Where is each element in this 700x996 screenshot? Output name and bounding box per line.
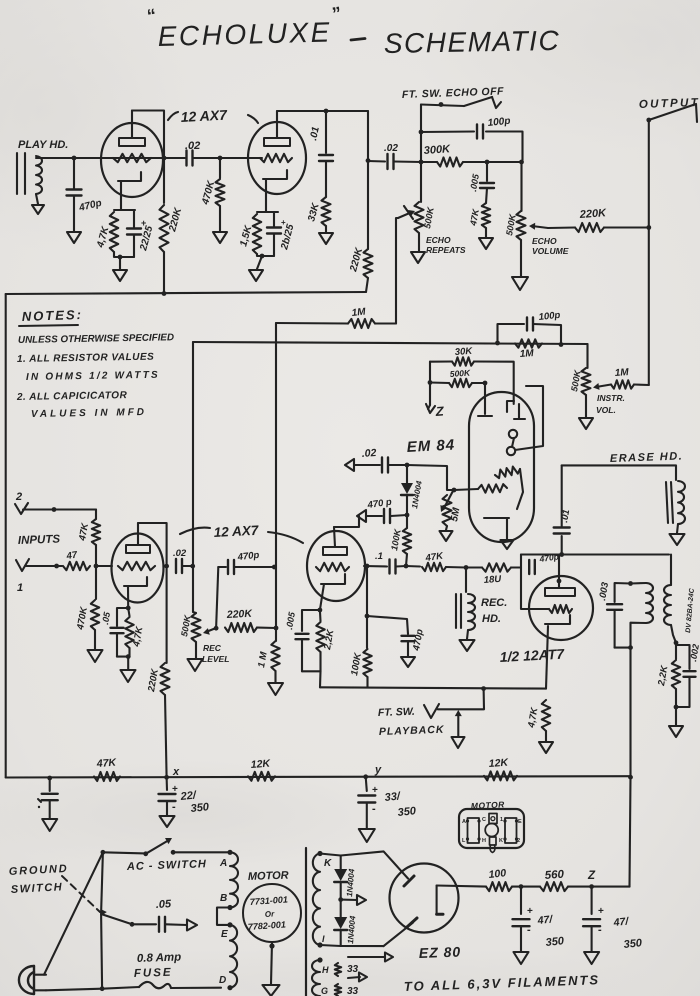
tube V2b grid zigzag [316, 563, 349, 571]
capacitor .02 (interstage 1) [185, 140, 200, 166]
resistor 1M (rail2) [515, 339, 542, 360]
resistor 47 (input 1) [63, 550, 90, 571]
wire V1b cathode join [257, 254, 274, 256]
rec head coil [467, 594, 475, 639]
tube V1a 12AX7 envelope [101, 123, 163, 197]
wire input 1 [25, 564, 62, 569]
arrow filament bus [348, 953, 393, 962]
node 5M junction [452, 488, 457, 493]
svg-text:VALUES IN MFD: VALUES IN MFD [31, 407, 147, 420]
node output/220K [646, 225, 651, 230]
node rec wiper [214, 626, 219, 631]
diode 1N4004 (eye) [401, 465, 424, 515]
wire osc top bus [521, 555, 669, 568]
svg-text:47K: 47K [95, 757, 117, 770]
svg-text:.02: .02 [361, 447, 377, 460]
notes line 1 [18, 332, 174, 346]
svg-text:x: x [172, 766, 180, 778]
resistor 220K (V2a plate load) [146, 663, 170, 695]
tap I [322, 934, 325, 944]
resistor 220K (V1b plate load) [348, 246, 372, 278]
resistor 33K [306, 162, 330, 232]
resistor 4.7K (osc cathode) [526, 700, 550, 741]
title SCHEMATIC [384, 25, 561, 59]
resistor 300K [421, 143, 487, 166]
svg-text:G: G [321, 986, 328, 996]
tube V1b grid zigzag [260, 154, 292, 162]
transformer primary winding upper [230, 852, 238, 907]
resistor 220K (output mix) [548, 207, 649, 232]
node filter 1 [519, 884, 524, 889]
ground below 470K input [88, 650, 103, 662]
tube V3 12AT7 envelope [529, 576, 593, 640]
diode 1N4004 (upper) [334, 856, 356, 900]
node X [164, 766, 180, 780]
node .01 branch [324, 109, 329, 114]
svg-text:1: 1 [17, 582, 23, 594]
capacitor .05 (line) [132, 898, 172, 932]
tube V1a plate [119, 111, 145, 147]
arrow playback plug [455, 710, 462, 736]
capacitor 22/350 [159, 777, 211, 815]
EM84 zigzag lower [454, 469, 523, 509]
tap G [321, 986, 328, 996]
node Y [363, 764, 382, 779]
fuse [139, 982, 221, 988]
label ERASE HD. [610, 450, 684, 465]
resistor 1M (instr) [611, 367, 649, 389]
label DV 82BA-24C [685, 587, 696, 633]
svg-text:1M: 1M [614, 367, 629, 379]
resistor 100K (eye) [389, 515, 411, 566]
wire instr pot ground [585, 395, 587, 417]
svg-text:INPUTS: INPUTS [18, 534, 61, 547]
wire rail 3 [6, 776, 631, 777]
tap A [219, 858, 227, 869]
title ECHOLUXE [157, 16, 332, 52]
EM84 eye dots [507, 430, 517, 455]
node output [646, 118, 651, 123]
svg-text:C: C [482, 817, 486, 823]
ground below 33/350 [359, 829, 375, 842]
tube V1b cathode [263, 170, 287, 212]
svg-text:D: D [219, 975, 226, 986]
play head wire to grid [36, 157, 185, 159]
resistor 18K [466, 563, 521, 586]
resistor 12K (rail3 a) [248, 758, 275, 781]
label MOTOR [248, 870, 289, 883]
capacitor filter (left) [38, 778, 58, 818]
svg-text:E: E [518, 819, 522, 825]
svg-text:PLAY HD.: PLAY HD. [18, 139, 68, 151]
tube V2a envelope [112, 534, 164, 603]
mains plug [19, 966, 46, 994]
svg-text:H: H [482, 838, 486, 844]
motor connector body [459, 809, 524, 848]
ground below bias [669, 726, 683, 737]
node 220K/1M [274, 626, 279, 631]
resistor 33 (H) [335, 963, 359, 976]
wire to V2a grid [96, 565, 112, 567]
motor connector letters [462, 817, 522, 844]
wire Z bus [429, 362, 431, 405]
transformer core [305, 848, 307, 996]
svg-text:350: 350 [623, 937, 643, 951]
capacitor .02 (eye feed) [345, 447, 407, 473]
wire grid loop [521, 568, 549, 610]
label GROUND [9, 863, 69, 878]
resistor 560 [540, 869, 568, 891]
wire pivot down [101, 914, 102, 989]
switch AC [143, 838, 175, 856]
wire V2a plate rail [138, 523, 167, 663]
svg-text:LEVEL: LEVEL [202, 654, 229, 664]
svg-text:K: K [499, 838, 503, 844]
dashed pointer [62, 876, 100, 912]
resistor 1.5K (V1b cathode) [238, 212, 278, 254]
svg-text:VOLUME: VOLUME [532, 246, 569, 256]
node V1b cathode net [257, 254, 264, 269]
wire grid bus drop [275, 323, 277, 641]
node 470p branch [365, 614, 370, 619]
wire rec level ground [195, 642, 197, 658]
jack playback [424, 704, 439, 718]
ground below left cap [42, 819, 57, 831]
wire V2a plate load to rail3 [165, 695, 167, 777]
capacitor .1 (coupling) [364, 551, 406, 574]
resistor 1M (V2b grid leak) [256, 641, 280, 682]
motor connector pins left [466, 818, 481, 843]
wire repeats to ground [418, 233, 420, 251]
tube V2a plate [126, 523, 150, 553]
svg-text:HD.: HD. [482, 613, 501, 625]
wire V1b plate drop [367, 111, 369, 249]
tube V1a grid zigzag [113, 154, 151, 162]
potentiometer 500K rec level [179, 612, 229, 664]
capacitor 470p (to ground) [367, 616, 426, 656]
ground playback [452, 737, 465, 748]
node rec level top [190, 564, 195, 569]
ground below rec level [188, 659, 203, 671]
label input 2 [15, 491, 22, 503]
svg-text:OUTPUT: OUTPUT [639, 97, 700, 111]
wire output bus [648, 120, 650, 385]
svg-text:E: E [221, 929, 228, 940]
ground below 22/350 [160, 816, 175, 827]
svg-text:18U: 18U [483, 574, 502, 586]
potentiometer 500K echo repeats [398, 202, 466, 255]
wire V2a cathode join [117, 654, 131, 669]
arrow filament a [348, 973, 367, 982]
notes line 4 [16, 390, 128, 403]
svg-text:EZ 80: EZ 80 [419, 944, 462, 961]
wire 220K to B+ rail [163, 252, 165, 294]
resistor 33 (G) [335, 984, 359, 996]
label OUTPUT [639, 97, 700, 111]
wire rail3 right drop [628, 775, 633, 887]
svg-text:Z: Z [587, 870, 596, 882]
wire primary return [631, 623, 647, 778]
tube EZ80 envelope [390, 864, 459, 933]
ground below V1a cathode [113, 270, 127, 281]
ground below EM84 [501, 540, 514, 549]
svg-text:INSTR.: INSTR. [597, 393, 625, 403]
svg-text:ECHO: ECHO [426, 235, 451, 245]
node 300K/.005 junction [485, 160, 490, 165]
wire into pot [520, 162, 522, 211]
tube V3 cathode [545, 615, 570, 689]
node switch top [439, 102, 444, 107]
capacitor .02 (echo feed) [368, 143, 421, 169]
node play-head/470p junction [72, 156, 77, 161]
label SWITCH [11, 881, 64, 896]
svg-text:EM 84: EM 84 [406, 436, 455, 456]
label input 1 [17, 582, 23, 594]
label REC. [481, 597, 507, 609]
svg-text:.002: .002 [688, 643, 700, 662]
ground below motor [263, 985, 280, 996]
node Z supply [587, 870, 596, 889]
resistor 220K (wiper) [225, 608, 276, 632]
wire repeats wiper drop [396, 218, 398, 324]
svg-text:REPEATS: REPEATS [426, 245, 466, 255]
ground below 33K [319, 233, 333, 244]
svg-text:VOL.: VOL. [596, 405, 616, 415]
svg-text:300K: 300K [423, 143, 451, 157]
title quote close [331, 3, 343, 24]
resistor 220K (V1a plate load) [160, 205, 185, 252]
tap K [324, 858, 332, 869]
transformer primary coil [646, 583, 653, 623]
jack input 2 [15, 503, 28, 514]
resistor 470K (input grid leak) [75, 566, 99, 649]
EM84 eye return [515, 386, 543, 450]
wire switch to transformer [173, 851, 229, 853]
ground below 47/350 a [514, 952, 529, 964]
tube V1b 12AX7 envelope [248, 122, 306, 194]
svg-text:100: 100 [488, 867, 507, 881]
svg-text:-: - [172, 801, 176, 813]
capacitor 470p (osc) [529, 551, 559, 574]
svg-text:560: 560 [544, 869, 565, 882]
capacitor .01 (erase) [554, 465, 573, 554]
svg-text:SCHEMATIC: SCHEMATIC [384, 25, 561, 59]
resistor 30K [430, 346, 514, 404]
resistor 2.2K (V2b cathode) [316, 610, 336, 671]
wire left ground bus [5, 294, 7, 778]
svg-text:A: A [219, 858, 227, 869]
node diode top [405, 463, 410, 468]
svg-text:FT. SW.: FT. SW. [378, 706, 415, 719]
tube V2b plate [323, 527, 347, 555]
ground below instr vol [579, 418, 593, 429]
potentiometer 500K instr vol [569, 368, 625, 415]
wire playback stub [438, 689, 484, 710]
svg-text:12K: 12K [488, 757, 509, 770]
svg-text:100p: 100p [538, 310, 561, 323]
wire B+ rail 2 [193, 342, 588, 344]
label FT. SW. [378, 706, 415, 719]
node V2a cathode junction [126, 606, 131, 611]
notes line 5 [31, 407, 147, 420]
wire ground switch pole [101, 852, 103, 913]
wire osc to transformer [670, 555, 672, 586]
capacitor .002 [676, 643, 700, 707]
wire B+ dropper [192, 342, 194, 612]
ground below 470p [401, 657, 415, 667]
svg-text:-: - [598, 924, 602, 936]
wire 470p drop [73, 158, 75, 189]
capacitor 100p (tone bridge) [495, 310, 563, 347]
svg-text:A: A [462, 819, 466, 825]
tube V1b plate [264, 111, 290, 146]
wire V2b plate rail [334, 516, 359, 527]
node rail1/V1a [162, 291, 167, 296]
svg-text:0.8 Amp: 0.8 Amp [137, 951, 182, 965]
arrow line cap [166, 920, 197, 931]
node inputs mix [94, 564, 99, 569]
svg-text:350: 350 [545, 935, 565, 949]
potentiometer 500K echo volume [504, 211, 569, 256]
notes line 3 [26, 370, 160, 383]
svg-text:Or: Or [265, 909, 276, 919]
wire I tap bus [320, 945, 384, 946]
EZ80 plate lower [407, 918, 417, 927]
capacitor 470p (eye) [357, 497, 407, 523]
ground below V1b cathode [249, 270, 263, 281]
ground below 47K [479, 238, 493, 249]
notes heading [19, 307, 83, 326]
svg-text:-: - [372, 803, 376, 815]
svg-text:1M: 1M [519, 348, 534, 360]
play head PLAY HD. label [18, 139, 68, 151]
resistor 12K (rail3 b) [484, 757, 517, 781]
svg-text:PLAYBACK: PLAYBACK [379, 724, 445, 738]
tube V3 plate [545, 555, 575, 597]
label EZ 80 [419, 944, 462, 961]
wire erase bus [562, 465, 676, 480]
svg-text:REC.: REC. [481, 597, 507, 609]
capacitor 100p (echo) [421, 116, 523, 160]
svg-text:12K: 12K [250, 758, 271, 771]
svg-text:1M: 1M [351, 307, 367, 319]
transformer secondary HV [313, 851, 323, 948]
svg-text:H: H [322, 965, 329, 975]
svg-text:1/2 12AT7: 1/2 12AT7 [499, 646, 565, 665]
resistor 500K (eye grid) [430, 368, 485, 388]
ground below V2a cathode [121, 670, 136, 682]
label TO ALL 6,3V FILAMENTS [404, 972, 601, 994]
label 0.8 Amp [137, 951, 182, 965]
resistor 100 [486, 867, 512, 891]
wire output terminal [649, 104, 697, 122]
svg-text:ECHO: ECHO [532, 236, 557, 246]
resistor 1M (feedback) [276, 307, 396, 328]
svg-text:NOTES:: NOTES: [22, 307, 84, 324]
svg-text:+: + [598, 906, 604, 917]
wire rail2 corner to instr pot [586, 344, 588, 368]
tap E [221, 929, 228, 940]
ground below echo volume [512, 277, 528, 290]
motor connector pins right [503, 818, 518, 843]
label 12AX7 (inputs) [180, 523, 303, 543]
node V2b cathode junction [318, 608, 323, 613]
transformer primary winding lower [230, 925, 237, 988]
ground below 4.7K osc [539, 742, 553, 753]
capacitor .02 (interstage inputs) [173, 548, 193, 573]
wire 470p to ground [73, 196, 75, 231]
EM84 cathode [484, 518, 509, 539]
wire motor ground [269, 942, 274, 984]
play head coil lead arrow [32, 194, 44, 214]
node V2b grid [272, 565, 277, 570]
erase head core [666, 482, 673, 523]
wire V2b cathode join [302, 671, 321, 687]
wire .02 to 5M node [407, 465, 454, 490]
svg-text:-: - [527, 924, 531, 936]
node rail3 left cap [47, 776, 52, 781]
node Z label [426, 403, 445, 419]
label INPUTS [18, 534, 61, 547]
arrow bias takeoff [341, 895, 366, 905]
tube V2a cathode [124, 577, 147, 608]
resistor 100K (mix) [349, 616, 372, 687]
motor connector label [471, 799, 506, 811]
capacitor .01 (to 33K) [308, 111, 333, 161]
wire 100-560 [512, 886, 540, 888]
resistor 470K (grid leak) [200, 158, 224, 231]
wire 560 to Z [568, 886, 630, 888]
capacitor 470p (input) [67, 190, 103, 215]
svg-text:ERASE HD.: ERASE HD. [610, 450, 684, 465]
resistor 4.7K (V1a cathode) [95, 210, 135, 252]
wire secondary bottom [671, 625, 678, 645]
svg-text:2. ALL CAPICICATOR: 2. ALL CAPICICATOR [16, 390, 128, 403]
node echo volume top [519, 160, 524, 165]
wire tap jumper [217, 908, 230, 925]
potentiometer 5M [440, 489, 462, 526]
wire EZ80 output [437, 886, 486, 887]
node switch feed [101, 850, 106, 855]
svg-text:MOTOR: MOTOR [248, 870, 289, 883]
transformer secondary coil [664, 585, 671, 625]
ground below 1M [268, 683, 283, 695]
label FUSE [134, 967, 173, 980]
capacitor 22/25 (V1a cathode bypass) [127, 210, 155, 257]
ground below 470K [213, 232, 227, 243]
svg-text:500K: 500K [449, 368, 471, 379]
svg-text:220K: 220K [578, 207, 607, 221]
svg-text:REC: REC [203, 643, 222, 653]
capacitor 33/350 [358, 777, 417, 828]
ground below rec head [460, 640, 475, 651]
svg-text:2: 2 [517, 838, 520, 844]
svg-text:47: 47 [65, 550, 79, 563]
node diode mid [338, 897, 343, 902]
tap H [322, 965, 329, 975]
svg-text:IN OHMS 1/2 WATTS: IN OHMS 1/2 WATTS [26, 370, 160, 383]
label AC - SWITCH [126, 858, 207, 873]
svg-text:12 AX7: 12 AX7 [213, 523, 260, 540]
label HD. [482, 613, 501, 625]
svg-text:350: 350 [397, 805, 417, 819]
svg-text:33: 33 [347, 986, 359, 996]
switch FT.SW. echo off [421, 97, 501, 108]
node V1a plate/coupling junction [162, 156, 167, 161]
wire playback bus [320, 687, 546, 688]
wire cap to V2 grid [193, 157, 262, 159]
svg-text:12 AX7: 12 AX7 [180, 107, 228, 125]
